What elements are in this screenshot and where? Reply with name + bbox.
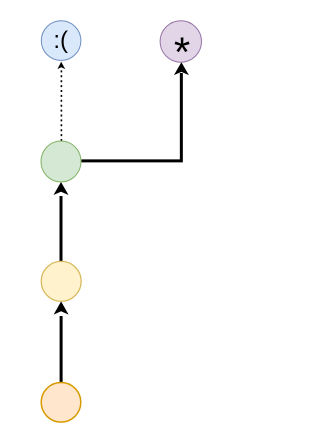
svg-text:*: * <box>174 28 190 75</box>
svg-text::(: :( <box>53 27 68 54</box>
